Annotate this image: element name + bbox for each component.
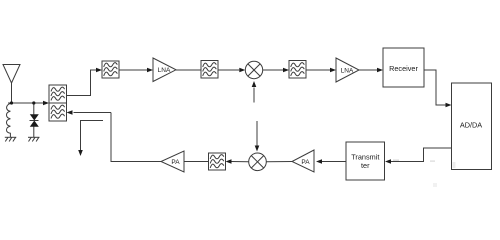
- svg-text:Receiver: Receiver: [389, 64, 418, 73]
- svg-text:PA: PA: [171, 159, 180, 166]
- svg-text:AD/DA: AD/DA: [460, 121, 482, 130]
- svg-text:PA: PA: [301, 159, 310, 166]
- svg-text:LNA: LNA: [158, 67, 171, 74]
- svg-text:LNA: LNA: [341, 67, 354, 74]
- svg-text:ter: ter: [361, 161, 370, 170]
